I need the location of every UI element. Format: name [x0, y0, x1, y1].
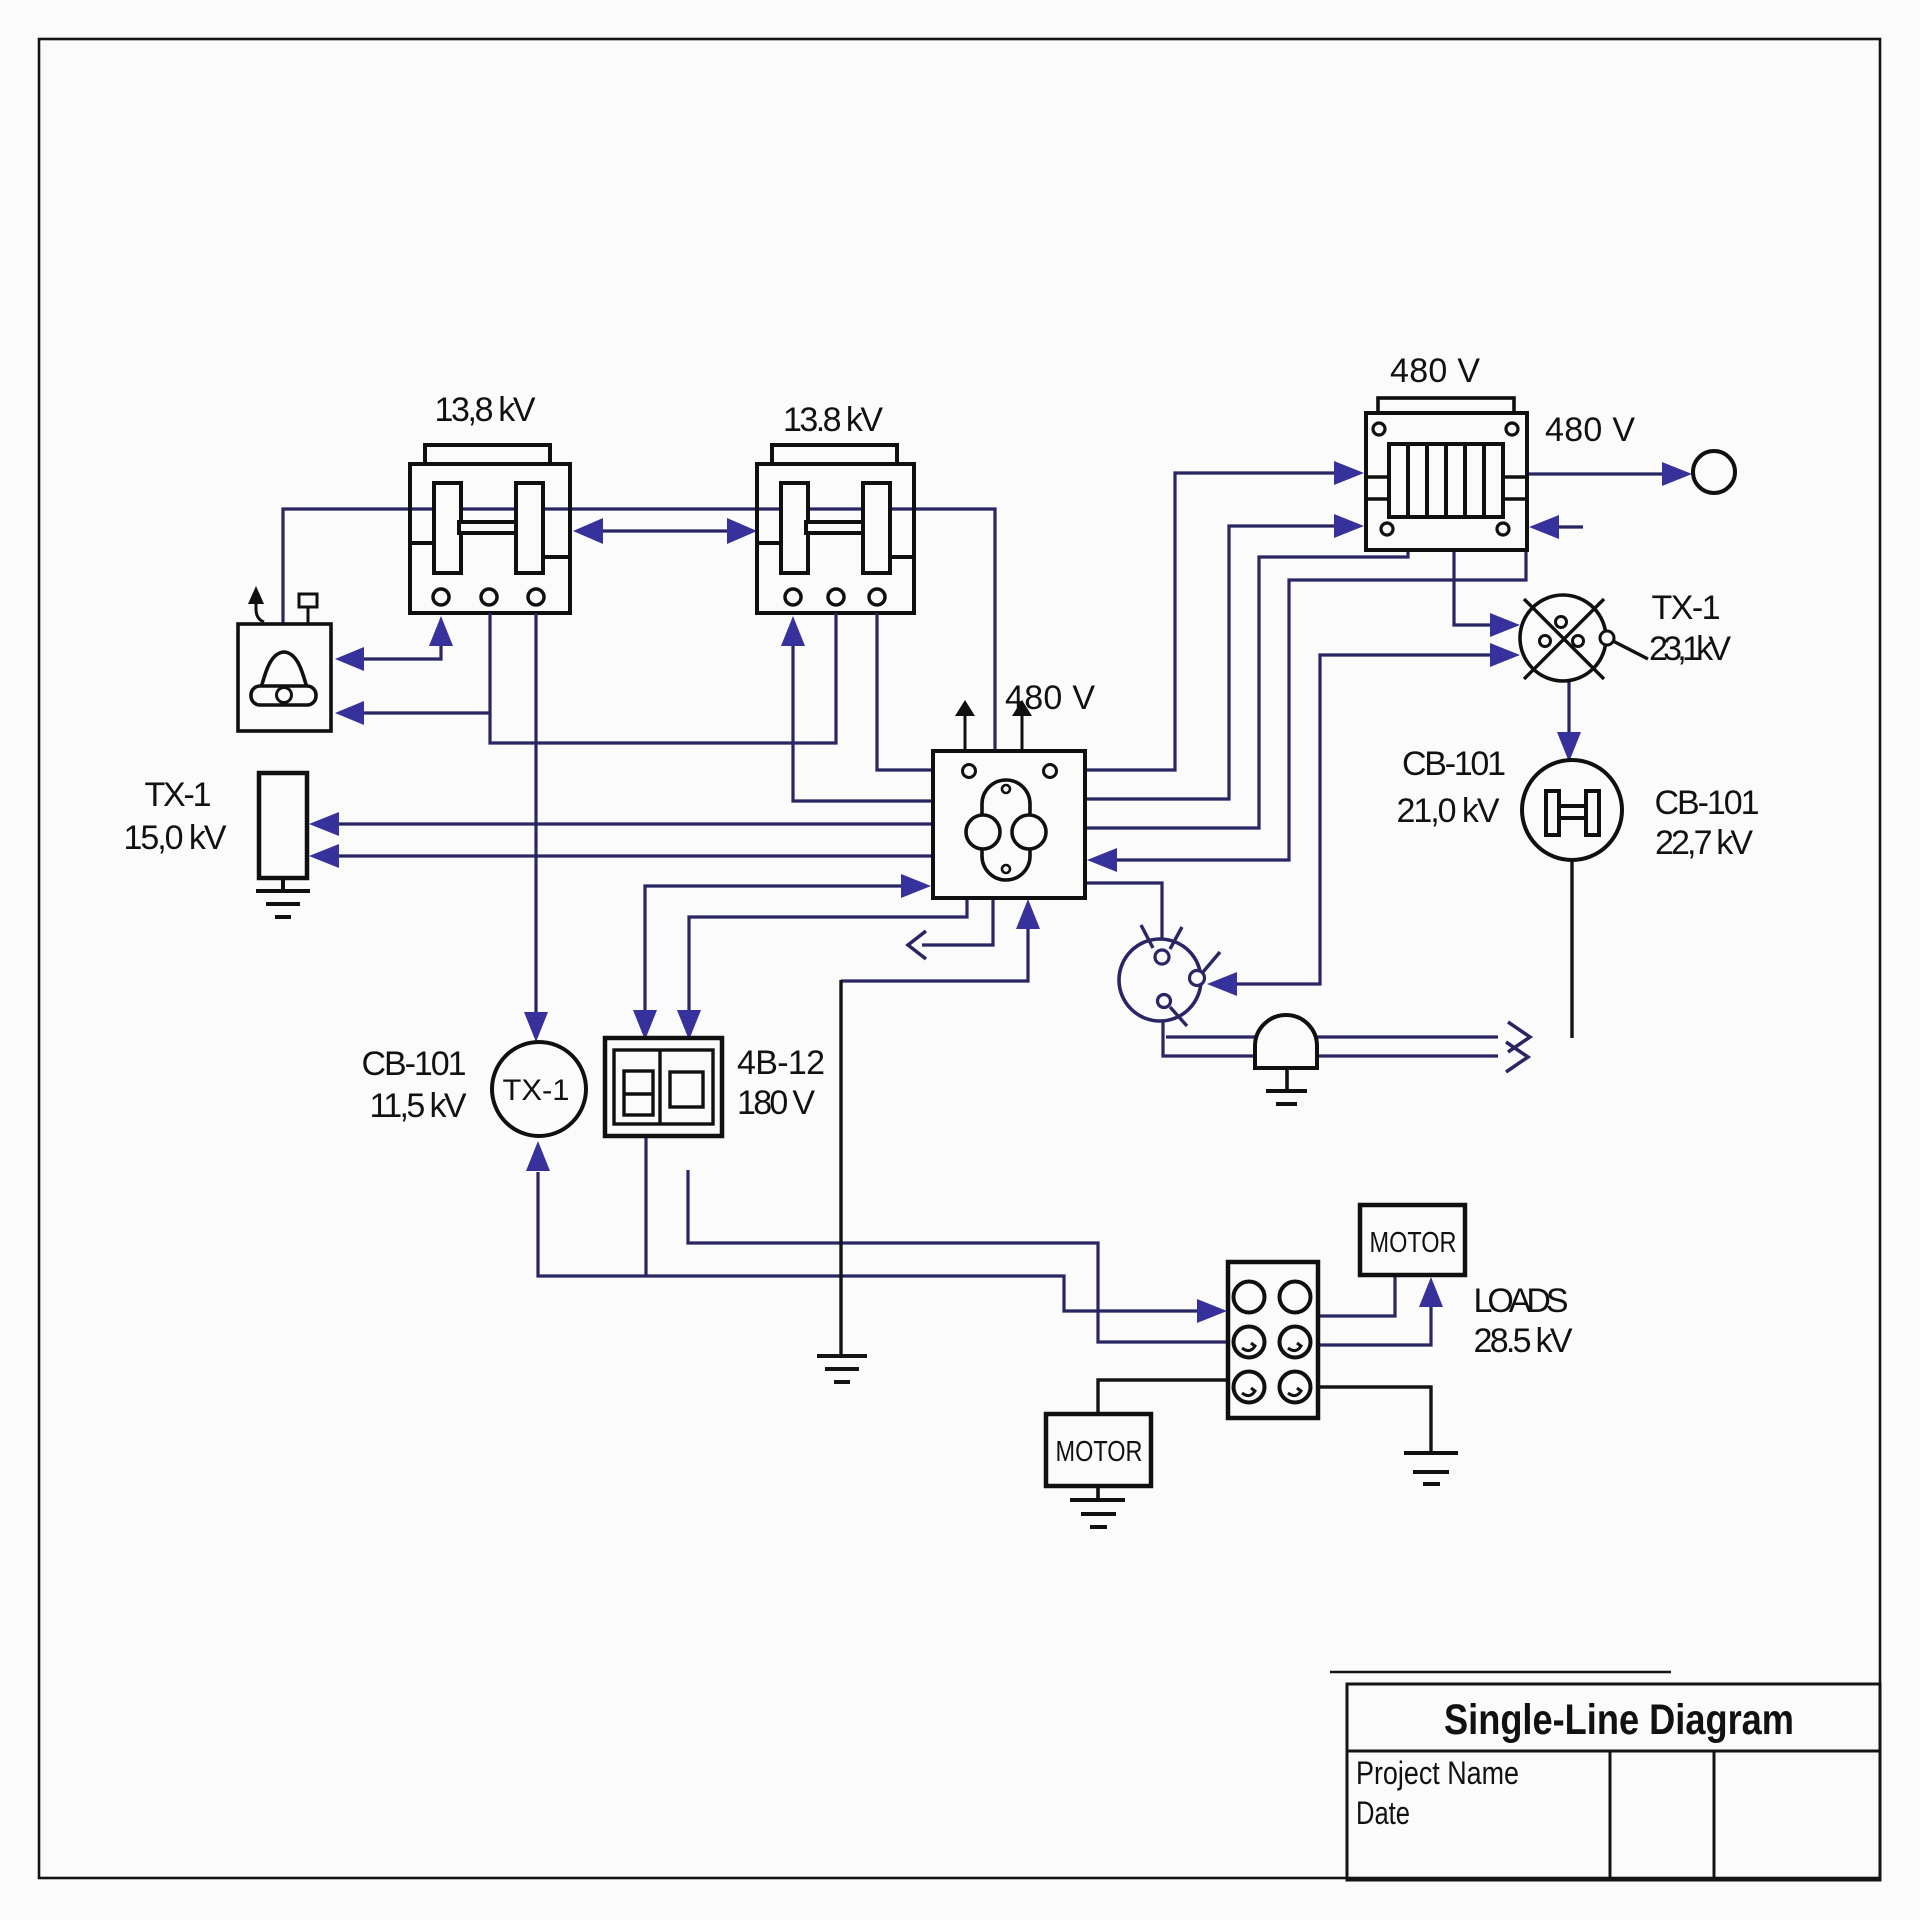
svg-text:28.5 kV: 28.5 kV	[1474, 1322, 1573, 1360]
svg-text:480 V: 480 V	[1390, 352, 1480, 390]
svg-text:MOTOR: MOTOR	[1056, 1436, 1143, 1468]
svg-text:4B-12: 4B-12	[737, 1044, 825, 1082]
svg-text:TX-1: TX-1	[1652, 589, 1721, 627]
svg-text:21,0 kV: 21,0 kV	[1397, 792, 1500, 830]
svg-text:CB-101: CB-101	[1655, 784, 1760, 822]
svg-text:13.8 kV: 13.8 kV	[783, 401, 883, 439]
svg-text:480 V: 480 V	[1005, 679, 1095, 717]
svg-text:TX-1: TX-1	[145, 776, 212, 814]
svg-text:23,1kV: 23,1kV	[1649, 630, 1731, 668]
svg-text:11,5 kV: 11,5 kV	[370, 1087, 467, 1125]
svg-text:13,8 kV: 13,8 kV	[435, 391, 536, 429]
svg-text:22,7 kV: 22,7 kV	[1655, 824, 1753, 862]
svg-text:Project Name: Project Name	[1356, 1755, 1519, 1791]
svg-text:15,0 kV: 15,0 kV	[124, 819, 227, 857]
svg-text:TX-1: TX-1	[503, 1074, 570, 1107]
svg-text:CB-101: CB-101	[362, 1045, 467, 1083]
svg-text:Single-Line Diagram: Single-Line Diagram	[1444, 1696, 1794, 1744]
svg-text:180 V: 180 V	[737, 1084, 815, 1122]
svg-text:480 V: 480 V	[1545, 411, 1635, 449]
svg-text:Date: Date	[1356, 1795, 1410, 1831]
svg-text:LOADS: LOADS	[1474, 1282, 1569, 1320]
svg-text:MOTOR: MOTOR	[1370, 1227, 1457, 1259]
svg-text:CB-101: CB-101	[1402, 745, 1506, 783]
